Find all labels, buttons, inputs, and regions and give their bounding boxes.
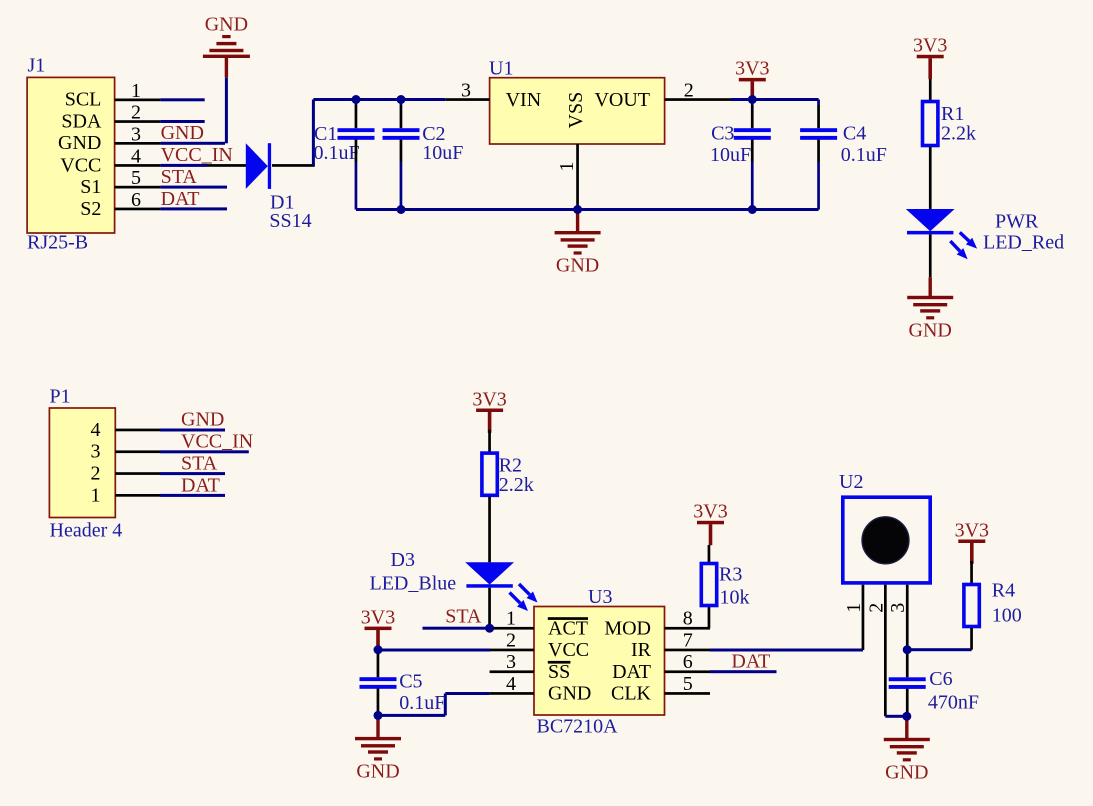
svg-text:VCC_IN: VCC_IN (181, 431, 253, 453)
svg-text:U2: U2 (839, 471, 863, 493)
svg-text:GND: GND (909, 319, 952, 341)
svg-text:4: 4 (91, 419, 101, 441)
svg-text:C5: C5 (399, 671, 422, 693)
svg-text:DAT: DAT (731, 650, 770, 672)
svg-text:LED_Red: LED_Red (983, 232, 1064, 254)
svg-text:3V3: 3V3 (735, 58, 769, 80)
svg-text:6: 6 (131, 189, 141, 211)
svg-text:0.1uF: 0.1uF (314, 142, 360, 164)
svg-text:3V3: 3V3 (913, 35, 947, 57)
svg-text:VIN: VIN (506, 89, 542, 111)
svg-text:SS14: SS14 (269, 210, 311, 232)
svg-text:4: 4 (131, 145, 141, 167)
svg-text:DAT: DAT (612, 661, 651, 683)
svg-text:BC7210A: BC7210A (537, 715, 619, 737)
svg-text:SS: SS (548, 661, 570, 683)
svg-text:3V3: 3V3 (693, 501, 727, 523)
svg-text:2: 2 (684, 80, 694, 102)
svg-text:100: 100 (992, 605, 1022, 627)
svg-text:GND: GND (205, 14, 248, 36)
svg-text:3V3: 3V3 (361, 606, 395, 628)
svg-text:SCL: SCL (65, 89, 102, 111)
svg-text:10k: 10k (720, 587, 750, 609)
svg-text:R4: R4 (992, 580, 1015, 602)
svg-text:3: 3 (91, 441, 101, 463)
svg-text:2.2k: 2.2k (941, 122, 976, 144)
svg-text:SDA: SDA (61, 110, 102, 132)
svg-text:0.1uF: 0.1uF (841, 144, 887, 166)
svg-text:GND: GND (885, 761, 928, 783)
svg-text:C6: C6 (929, 668, 952, 690)
svg-text:3V3: 3V3 (472, 388, 506, 410)
svg-text:GND: GND (161, 122, 204, 144)
svg-text:10uF: 10uF (710, 144, 751, 166)
svg-text:LED_Blue: LED_Blue (370, 573, 457, 595)
svg-text:RJ25-B: RJ25-B (27, 232, 88, 254)
svg-text:GND: GND (356, 761, 399, 783)
svg-text:VOUT: VOUT (594, 89, 650, 111)
svg-text:VCC_IN: VCC_IN (161, 144, 233, 166)
svg-text:3V3: 3V3 (955, 519, 989, 541)
svg-text:5: 5 (683, 673, 693, 695)
svg-text:GND: GND (181, 409, 224, 431)
svg-text:D3: D3 (391, 549, 415, 571)
svg-text:7: 7 (683, 630, 693, 652)
svg-text:J1: J1 (28, 55, 46, 77)
svg-text:Header 4: Header 4 (50, 520, 123, 542)
svg-text:STA: STA (445, 605, 482, 627)
svg-text:GND: GND (58, 132, 101, 154)
svg-text:1: 1 (131, 80, 141, 102)
svg-text:MOD: MOD (604, 617, 651, 639)
svg-text:C3: C3 (711, 123, 734, 145)
svg-text:IR: IR (631, 639, 652, 661)
svg-text:5: 5 (131, 167, 141, 189)
svg-text:CLK: CLK (611, 683, 652, 705)
svg-text:STA: STA (161, 166, 198, 188)
svg-text:1: 1 (506, 608, 516, 630)
svg-text:2.2k: 2.2k (499, 474, 534, 496)
svg-text:3: 3 (461, 80, 471, 102)
svg-text:2: 2 (91, 463, 101, 485)
svg-text:R3: R3 (719, 564, 742, 586)
svg-text:VCC: VCC (548, 639, 589, 661)
svg-text:3: 3 (131, 123, 141, 145)
svg-text:8: 8 (683, 608, 693, 630)
svg-text:1: 1 (91, 484, 101, 506)
svg-text:S1: S1 (80, 176, 101, 198)
svg-text:0.1uF: 0.1uF (399, 692, 445, 714)
svg-text:PWR: PWR (995, 210, 1039, 232)
svg-text:GND: GND (548, 683, 591, 705)
svg-text:2: 2 (131, 102, 141, 124)
svg-text:VCC: VCC (60, 154, 101, 176)
svg-text:DAT: DAT (161, 188, 200, 210)
svg-text:6: 6 (683, 651, 693, 673)
svg-text:ACT: ACT (548, 617, 588, 639)
svg-text:2: 2 (865, 603, 887, 613)
svg-text:C4: C4 (843, 123, 866, 145)
svg-text:3: 3 (506, 651, 516, 673)
svg-text:3: 3 (887, 603, 909, 613)
svg-text:P1: P1 (50, 386, 71, 408)
svg-text:4: 4 (506, 673, 516, 695)
svg-text:VSS: VSS (565, 92, 587, 129)
svg-text:1: 1 (843, 603, 865, 613)
svg-text:U3: U3 (588, 586, 612, 608)
svg-text:470nF: 470nF (928, 692, 979, 714)
svg-text:DAT: DAT (181, 474, 220, 496)
svg-text:STA: STA (181, 452, 218, 474)
svg-text:10uF: 10uF (422, 142, 463, 164)
svg-text:2: 2 (506, 630, 516, 652)
svg-text:U1: U1 (489, 58, 513, 80)
svg-text:GND: GND (556, 255, 599, 277)
svg-text:1: 1 (556, 162, 578, 172)
svg-text:S2: S2 (80, 198, 101, 220)
